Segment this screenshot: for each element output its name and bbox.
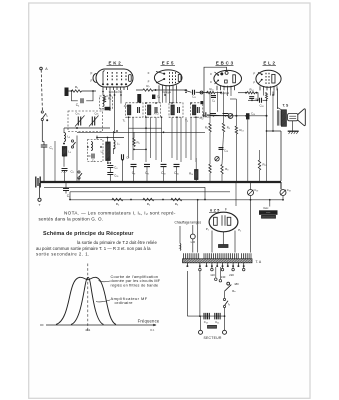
svg-text:R₁₂: R₁₂ — [263, 163, 267, 167]
label transformer T1 — [123, 119, 126, 123]
junction dot 256.5,92.7 — [256, 92, 258, 94]
label R10 — [209, 87, 214, 91]
junction R5 link b — [145, 149, 147, 151]
svg-text:461: 461 — [85, 328, 90, 332]
svg-text:F: F — [91, 79, 93, 83]
svg-text:A.G: A.G — [154, 112, 160, 116]
label L.R — [191, 240, 195, 244]
dashed box tuning gang — [68, 111, 103, 132]
label 6Z5 — [210, 208, 219, 212]
junction dot 117,131 — [116, 130, 118, 132]
svg-text:Cv₁: Cv₁ — [76, 113, 80, 116]
label C10 — [161, 171, 166, 175]
pin label F (EF5 upper) — [148, 71, 150, 75]
junction R14 right — [256, 92, 258, 94]
annotation arrow to band curve — [99, 281, 111, 282]
tap extension circle b — [219, 267, 222, 282]
phono jack PU — [200, 91, 203, 94]
wire to EBC3 grid — [196, 91, 207, 93]
label C6 — [114, 166, 117, 170]
svg-text:F: F — [225, 207, 227, 211]
junction R5 link a — [133, 149, 135, 151]
pin label F (EK2 upper) — [91, 71, 93, 75]
svg-text:sentés dans la position G. O.: sentés dans la position G. O. — [39, 217, 104, 222]
underline EBC3 — [216, 65, 234, 67]
resistor R17 — [209, 164, 211, 173]
variable capacitor CV2 — [92, 117, 94, 126]
resistor R9 — [209, 123, 211, 132]
narrow response curve — [71, 277, 104, 324]
capacitor C9b — [211, 96, 216, 98]
tube EL2 electrodes — [258, 72, 275, 84]
wire EK2 pin4 down — [120, 90, 122, 104]
junction dot 128.5,117.2 — [128, 116, 130, 118]
svg-text:R₇: R₇ — [146, 84, 149, 88]
winding ticks group right — [242, 253, 252, 258]
bus junction x=133.5 — [133, 181, 135, 183]
coil L5 inner — [91, 142, 93, 151]
wire IF drop 6 — [171, 117, 173, 158]
wire EF5 pin drop x=169.5 — [169, 90, 171, 103]
wire IF drop 10 — [190, 117, 192, 160]
svg-text:R₉: R₉ — [205, 126, 208, 130]
dashed box transformer AG box — [146, 103, 161, 117]
junction dot 101,147 — [100, 146, 102, 148]
ground symbol at bus left end — [36, 177, 40, 188]
input coil L1 (iron core choke) — [65, 88, 69, 97]
wire R10 to cathode — [215, 92, 221, 94]
svg-text:F: F — [148, 79, 150, 83]
label C10b — [192, 95, 197, 99]
svg-text:C₁₉: C₁₉ — [287, 188, 291, 192]
wire L4 to C2 — [63, 156, 65, 167]
svg-text:R₁₃: R₁₃ — [240, 128, 244, 132]
EF5 pin designations — [162, 91, 171, 94]
label C13 — [100, 107, 104, 111]
main ground bus — [41, 181, 282, 183]
capacitor C13 (block) — [105, 107, 111, 111]
wire R16 to bus — [195, 180, 197, 183]
junction dot 177,117.2 — [176, 116, 178, 118]
switch I4 — [223, 298, 228, 307]
svg-text:P₁: P₁ — [206, 227, 209, 231]
junction tuner b — [107, 137, 109, 139]
resistor R14 — [247, 92, 255, 94]
junction dot 146,117.2 — [145, 116, 147, 118]
resistor R3 — [103, 95, 105, 102]
bus junction x=223.5 — [223, 181, 225, 183]
graph axis arrowhead — [153, 324, 156, 327]
underline EF5 — [161, 65, 176, 67]
bus junction x=250.5 — [250, 181, 252, 183]
tube EL2 pins — [260, 86, 277, 90]
electrolytic C19b — [280, 190, 286, 196]
wire EF5 anode out — [184, 90, 191, 92]
junction dot 146,103 — [145, 102, 147, 104]
plug terminal right — [223, 330, 227, 334]
selector wiper terminal — [227, 282, 230, 285]
wire T.S top to anode — [278, 108, 282, 110]
svg-text:C₅: C₅ — [92, 159, 95, 163]
wire antenna lead elbow — [42, 141, 44, 143]
junction dot 246,115.8 — [245, 115, 247, 117]
junction dot 97,137.5 — [96, 137, 98, 139]
arrow CV1 — [75, 116, 85, 127]
potentiometer detection volume — [228, 114, 233, 119]
svg-text:F: F — [91, 71, 93, 75]
svg-text:réglés en filtres de bande: réglés en filtres de bande — [111, 283, 159, 287]
bus junction x=97 — [96, 181, 98, 183]
capacitor C21 b — [218, 313, 220, 320]
capacitor C14 — [223, 114, 229, 116]
heater winding 6Z5 — [219, 245, 229, 248]
capacitor C7 — [122, 154, 124, 160]
label I4 — [228, 302, 231, 306]
transformer AG box primary coil — [148, 105, 151, 115]
junction R10 left — [206, 92, 208, 94]
junction dot 161.5,117.2 — [161, 116, 163, 118]
junction C1 bus — [43, 181, 45, 183]
wire C10 to bus — [163, 167, 165, 183]
black tag vers chassis — [259, 210, 278, 215]
label L6 — [101, 150, 104, 154]
svg-text:Schéma de principe du Récepteu: Schéma de principe du Récepteur — [43, 231, 134, 237]
wire Ca6 to bus — [109, 174, 111, 182]
bus junction x=117 — [116, 181, 118, 183]
svg-text:R₈: R₈ — [225, 167, 228, 171]
junction dot 165,95 — [164, 94, 166, 96]
wire plug left — [200, 316, 202, 330]
coil L5b — [114, 140, 116, 149]
capacitor C3 below bus — [63, 189, 69, 191]
wire R14 left — [238, 92, 247, 94]
switch I2 — [71, 140, 75, 148]
bus junction x=163.5 — [163, 181, 165, 183]
wire gang left drop — [76, 136, 78, 183]
svg-text:F: F — [210, 80, 212, 84]
junction pole2 bus — [54, 181, 56, 183]
junction dot 246,92.7 — [245, 92, 247, 94]
resistor R18 — [221, 165, 223, 175]
arrow CV2 — [89, 116, 99, 127]
wire R5 top link — [133, 132, 135, 138]
capacitor C21 a — [215, 313, 217, 320]
wire L6 to C6 — [107, 161, 109, 165]
label R14 — [249, 87, 254, 91]
wire R2 to EK2 grid — [82, 90, 97, 92]
transformer T2a primary coil — [171, 105, 174, 115]
wire bus to rectifier F — [235, 182, 237, 206]
bus junction x=186 — [185, 181, 187, 183]
wire EBC3 top cap to volume — [204, 67, 227, 112]
underline EL2 — [263, 65, 277, 67]
junction dot 186,92.3 — [185, 91, 187, 93]
bus junction x=210 — [209, 181, 211, 183]
wire EBC3 diode drop — [217, 92, 219, 112]
bus junction x=205 — [204, 181, 206, 183]
junction dot 156,103 — [155, 102, 157, 104]
winding ticks group middle — [204, 253, 238, 258]
transformer T1 primary coil — [128, 105, 131, 115]
junction dot 121,95 — [120, 94, 122, 96]
wire AVC horizontal — [77, 131, 205, 133]
junction feed b — [250, 199, 252, 201]
junction R2 left — [71, 90, 73, 92]
tube EBC3 electrodes — [215, 71, 236, 84]
wire bus to earth terminal — [39, 183, 41, 198]
resistor R16 block — [195, 170, 199, 180]
wire C19a down long — [250, 196, 252, 253]
label C21 — [215, 320, 219, 324]
dashed box oscillator — [88, 140, 104, 162]
label C14b — [256, 97, 260, 101]
capacitor C10 — [161, 164, 167, 166]
heading Schema de principe — [43, 231, 134, 237]
svg-text:ordinaire: ordinaire — [115, 300, 134, 305]
label C18 — [259, 104, 263, 108]
label C19c — [224, 149, 228, 153]
return line 2 below bus — [70, 191, 230, 193]
resistor R10 — [207, 91, 215, 93]
bus junction x=77 — [76, 181, 78, 183]
svg-text:C₁₃: C₁₃ — [100, 107, 104, 111]
wire EK2 pin3 down — [114, 90, 116, 131]
dashed box antenna coupling — [100, 96, 113, 109]
bus junction x=88 — [87, 181, 89, 183]
annotation curve line3 — [111, 283, 159, 287]
wire IF drop 4 — [155, 117, 157, 160]
label C12b — [199, 116, 203, 120]
return line 1 below bus — [44, 186, 205, 188]
svg-text:C₁₂: C₁₂ — [199, 116, 203, 120]
svg-text:180: 180 — [234, 282, 239, 286]
junction row right — [204, 199, 206, 201]
svg-text:I₁: I₁ — [46, 114, 48, 118]
wire C1 to ground bus — [43, 147, 45, 182]
svg-text:F: F — [253, 72, 255, 76]
NOTA line 1 — [64, 211, 176, 216]
wire IF drop 1 — [132, 117, 134, 160]
pin label F (EBC3 lower) — [210, 80, 212, 84]
wire tuner horizontal b — [97, 137, 124, 139]
tube EL2 envelope — [256, 70, 281, 87]
wire lamp up — [192, 225, 194, 234]
svg-text:Dwc: Dwc — [263, 207, 269, 210]
junction R10 right — [220, 92, 222, 94]
wire EF5 pin drop x=173 — [172, 90, 174, 103]
svg-text:E B C 3: E B C 3 — [216, 61, 234, 66]
svg-text:C₂₁: C₂₁ — [215, 320, 219, 324]
left margin tick — [40, 324, 44, 326]
resistor R7 — [143, 89, 153, 91]
svg-text:C₁: C₁ — [50, 146, 53, 150]
label 180 — [234, 282, 239, 286]
junction dot 225.5,115.8 — [225, 115, 227, 117]
junction dot 273,95 — [272, 94, 274, 96]
capacitor C8 — [144, 164, 150, 166]
svg-text:110: 110 — [210, 273, 215, 277]
junction dot 114.5,95 — [114, 94, 116, 96]
wire IF drop 0 — [128, 117, 130, 158]
wire IF drop 11 — [195, 117, 197, 162]
wire EBC3 pin1 lower — [209, 132, 211, 164]
switch I1 contact dot — [46, 119, 48, 121]
svg-text:T₁: T₁ — [123, 119, 126, 123]
wire EBC3 pin drop x=227.5 — [227, 90, 229, 96]
electrolytic C19a — [248, 190, 254, 196]
junction dot 221,92.5 — [220, 92, 222, 94]
label R3 — [108, 97, 112, 101]
junction EL2 cathode det — [266, 115, 268, 117]
speaker cone — [298, 109, 306, 126]
resistor R8 — [171, 198, 182, 200]
svg-text:C₂₀: C₂₀ — [204, 320, 209, 324]
label R5 — [137, 141, 141, 145]
tube EBC3 envelope — [214, 70, 242, 86]
label C9b — [212, 98, 215, 102]
label C14 — [228, 115, 233, 119]
junction C18 a — [251, 99, 253, 101]
wire EBC3 cathode drop — [223, 92, 225, 124]
pin label F (EK2 lower) — [91, 79, 93, 83]
capacitor C20 b — [208, 313, 210, 320]
svg-text:T. S: T. S — [282, 104, 289, 108]
white text on tag — [266, 212, 271, 215]
wire EL2 cathode down — [266, 99, 268, 182]
svg-text:F.I.: F.I. — [150, 328, 154, 332]
junction dot 204,115.8 — [203, 115, 205, 117]
bus junction x=259.5 — [259, 181, 261, 183]
antenna coupling coil — [103, 98, 105, 107]
wire C19b down — [282, 196, 284, 200]
wire Rb lower — [222, 132, 224, 165]
pin label F (EBC3 upper) — [210, 72, 212, 76]
dashed box transformer T1 — [126, 103, 144, 117]
junction screen a — [145, 127, 147, 129]
label SECTEUR — [203, 336, 221, 340]
junction feed a — [197, 199, 199, 201]
junction R2 right — [92, 90, 94, 92]
tube 6Z5 envelope — [209, 212, 238, 232]
transformer T2b primary coil — [193, 105, 196, 115]
annotation curve line2 — [111, 279, 161, 283]
junction mains right — [224, 315, 226, 317]
svg-text:R₁₆: R₁₆ — [189, 172, 193, 176]
NOTA line 2 — [39, 217, 104, 222]
wire C2 to bus — [64, 170, 66, 182]
bus junction x=70 — [69, 181, 71, 183]
wire R14 to C18 — [255, 93, 258, 101]
wire EF5 pin drop x=176.5 — [176, 90, 178, 103]
wire L3 top — [63, 128, 65, 133]
tube EK2 pins — [103, 87, 128, 90]
label 130 — [221, 275, 226, 279]
junction dot 266.5,100.3 — [266, 99, 268, 101]
label R4 — [116, 202, 120, 206]
svg-text:L₅: L₅ — [117, 142, 120, 146]
transformer T.S winding — [281, 110, 286, 127]
label L5 — [117, 142, 120, 146]
svg-text:la sortie du primaire de T.2 d: la sortie du primaire de T.2 doit être r… — [77, 240, 157, 245]
junction dot 77,128 — [76, 127, 78, 129]
row drop left — [69, 192, 71, 200]
wire switch pole2 to bus — [54, 141, 56, 182]
bus junction x=216 — [215, 181, 217, 183]
wire EBC3 to det vertical — [235, 99, 237, 126]
wire osc top — [107, 138, 109, 143]
label Chauffage lampes — [174, 220, 201, 224]
wire EL2 pin drop x=270.5 — [270, 90, 272, 95]
svg-text:C₆: C₆ — [114, 166, 117, 170]
svg-text:E F 5: E F 5 — [162, 61, 174, 66]
resistor Rb — [222, 123, 224, 132]
wire R16 top — [195, 158, 197, 170]
junction dot 122.5,160 — [122, 159, 124, 161]
wire C16 blob to bus — [247, 119, 249, 182]
svg-text:C₆: C₆ — [157, 95, 160, 99]
capacitor C9 — [131, 164, 137, 166]
svg-text:sortie secondaire 2. 1.: sortie secondaire 2. 1. — [36, 252, 90, 257]
label C3 — [67, 194, 71, 198]
junction dot 103,91.5 — [102, 91, 104, 93]
bus junction x=276 — [275, 181, 277, 183]
wire selector down — [224, 291, 226, 298]
wire EL2 anode up — [277, 89, 279, 110]
heater winding left coil — [179, 244, 182, 251]
label L3 — [68, 135, 71, 139]
svg-text:au point commun sortie primair: au point commun sortie primaire T. 1 — R… — [36, 246, 151, 251]
variable capacitor CV1 — [78, 117, 80, 126]
label C20 — [204, 320, 209, 324]
dark row under tag — [262, 215, 276, 218]
junction dot 266.5,131 — [266, 130, 268, 132]
label I1 — [46, 114, 48, 118]
wire C1 top plate stub — [43, 142, 45, 146]
wire EF5 pin drop x=162.5 — [162, 90, 164, 103]
chassis ground under speaker — [288, 131, 299, 134]
svg-text:C₉: C₉ — [212, 98, 215, 102]
transformer AG box tuning capacitor — [155, 107, 157, 113]
wire speaker down — [292, 121, 294, 131]
pin label F (EF5 lower) — [148, 79, 150, 83]
junction row mid2 — [162, 199, 164, 201]
label A — [45, 67, 48, 71]
label EK2 — [109, 61, 122, 66]
label P1 — [206, 227, 209, 231]
potentiometer tone — [215, 157, 219, 161]
wire IF drop 5 — [161, 117, 163, 162]
junction dot 87.8,147 — [87, 146, 89, 148]
label Ca6 — [114, 174, 118, 178]
earth terminal T — [38, 198, 41, 201]
label Rb — [227, 126, 230, 130]
label 110 — [210, 273, 215, 277]
wire EBC3 grid drop — [209, 92, 211, 124]
switch I1 — [41, 111, 46, 121]
wire C5 left — [88, 155, 91, 157]
band-pass response curve — [56, 277, 116, 324]
capacitor C12 series — [204, 112, 206, 117]
label C4 — [76, 103, 80, 107]
bus junction x=52 — [51, 181, 53, 183]
capacitor C4 — [81, 98, 83, 103]
wire IF drop 9 — [185, 117, 187, 158]
wire C4 to junction — [86, 91, 93, 101]
power transformer T.A bar — [183, 259, 253, 263]
capacitor block C6b — [152, 95, 155, 100]
junction dot 191,103 — [190, 102, 192, 104]
label C13b — [206, 115, 210, 119]
